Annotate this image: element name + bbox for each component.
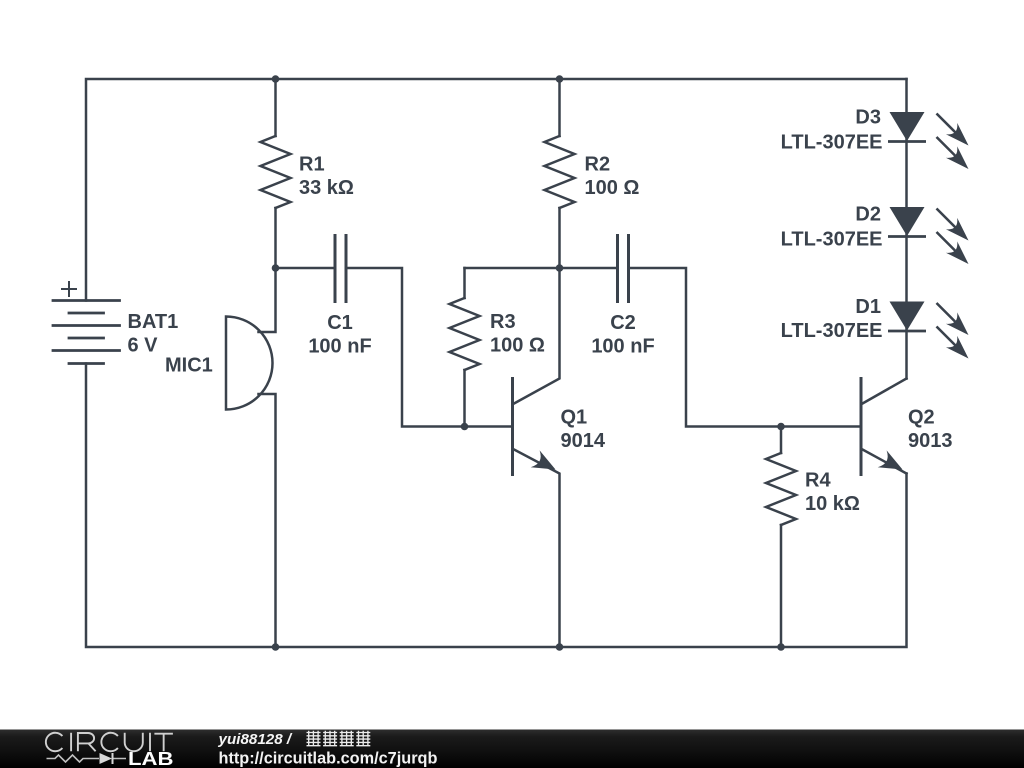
wire top rail — [86, 79, 907, 301]
resistor R1 — [261, 136, 291, 208]
node junction 8 — [556, 643, 564, 651]
svg-text:LTL-307EE: LTL-307EE — [781, 320, 883, 342]
svg-text:C1: C1 — [327, 312, 353, 334]
node junction 2 — [556, 75, 564, 83]
svg-text:R1: R1 — [299, 154, 325, 176]
LED D1 — [890, 302, 969, 359]
svg-text:BAT1: BAT1 — [128, 311, 179, 333]
svg-text:R2: R2 — [585, 154, 611, 176]
wire Q2 collector — [863, 379, 907, 404]
battery BAT1 — [53, 301, 120, 364]
logo wire and resistor — [47, 755, 127, 762]
transistor Q1 emitter arrow — [531, 450, 556, 469]
svg-text:33 kΩ: 33 kΩ — [299, 177, 354, 199]
svg-text:LTL-307EE: LTL-307EE — [781, 132, 883, 154]
node junction 3 — [272, 264, 280, 272]
transistor Q2 emitter arrow — [878, 450, 903, 469]
node junction 7 — [272, 643, 280, 651]
node junction 5 — [461, 423, 469, 431]
svg-text:6 V: 6 V — [128, 335, 159, 357]
svg-text:Q2: Q2 — [908, 407, 935, 429]
wire right rail / LED string — [905, 79, 908, 379]
wire bottom rail — [86, 364, 907, 648]
svg-text:R3: R3 — [490, 311, 516, 333]
svg-text:100 Ω: 100 Ω — [490, 335, 545, 357]
svg-text:D1: D1 — [855, 296, 881, 318]
resistor R4 — [766, 453, 796, 525]
svg-text:D3: D3 — [855, 107, 881, 129]
node junction 6 — [777, 423, 785, 431]
svg-text:100 nF: 100 nF — [308, 336, 371, 358]
wire R1 bottom lead — [274, 208, 277, 268]
wire Q1 emitter — [514, 450, 560, 648]
svg-text:100 Ω: 100 Ω — [585, 177, 640, 199]
node junction 1 — [272, 75, 280, 83]
logo CIRCUIT text — [46, 733, 173, 752]
transistor Q2 base bar — [860, 379, 863, 475]
svg-text:100 nF: 100 nF — [591, 336, 654, 358]
node junction 4 — [556, 264, 564, 272]
wire Q2 emitter — [863, 450, 907, 474]
wire R2 top lead — [558, 79, 561, 136]
svg-text:9014: 9014 — [561, 430, 606, 452]
svg-text:R4: R4 — [805, 470, 831, 492]
LED D2 — [890, 207, 969, 264]
wire C1 right to Q1 base — [347, 268, 511, 427]
logo diode — [100, 753, 113, 764]
LED D3 — [890, 112, 969, 169]
svg-text:C2: C2 — [610, 312, 636, 334]
svg-text:D2: D2 — [855, 204, 881, 226]
wire R3 leads — [463, 268, 466, 427]
svg-text:MIC1: MIC1 — [165, 355, 213, 377]
svg-text:LAB: LAB — [128, 749, 174, 768]
wire C2 right to Q2 base — [630, 268, 860, 427]
wire node to C1 left — [276, 267, 335, 270]
wire Q1 collector — [514, 268, 560, 404]
wire R1 top lead — [274, 79, 277, 136]
capacitor C1 — [335, 236, 346, 302]
wire R4 leads — [780, 427, 783, 648]
svg-text:http://circuitlab.com/c7jurqb: http://circuitlab.com/c7jurqb — [219, 750, 438, 768]
microphone MIC1 — [226, 317, 273, 410]
transistor Q1 base bar — [511, 379, 514, 475]
wire mid rail R3 to C2 — [465, 267, 617, 270]
resistor R2 — [545, 136, 575, 208]
node junction 9 — [777, 643, 785, 651]
wire R2 bottom lead — [558, 208, 561, 268]
footer title CJK 聲控電路 (drawn) — [307, 731, 371, 747]
svg-text:9013: 9013 — [908, 430, 953, 452]
capacitor C2 — [618, 236, 629, 302]
wire MIC1 top stub — [259, 268, 276, 332]
svg-text:LTL-307EE: LTL-307EE — [781, 229, 883, 251]
svg-text:Q1: Q1 — [561, 407, 588, 429]
wire MIC1 bottom stub — [259, 394, 276, 647]
resistor R3 — [450, 298, 480, 370]
svg-text:10 kΩ: 10 kΩ — [805, 493, 860, 515]
battery plus sign — [62, 282, 76, 296]
svg-text:yui88128 /: yui88128 / — [218, 731, 293, 748]
